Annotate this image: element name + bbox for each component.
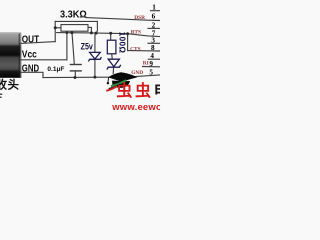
wire zener riser (94, 33, 96, 52)
svg-text:Z5v: Z5v (81, 40, 94, 51)
wire rail drop to V-node (96, 21, 97, 33)
wire Vcc horizontal (21, 59, 67, 61)
svg-text:3: 3 (151, 36, 155, 44)
wire D2 to ground (112, 67, 114, 73)
wire top rail (55, 20, 97, 22)
resistor R1 3.3K box (61, 25, 88, 32)
wire 100ohm drop (110, 33, 112, 40)
node OUT/resistor tee (54, 26, 57, 29)
wire capacitor bottom stub (74, 71, 76, 77)
node cap ground (74, 76, 77, 79)
DB9 signal names (130, 15, 149, 76)
svg-text:RI: RI (143, 61, 149, 67)
svg-text:0.1µF: 0.1µF (47, 66, 64, 73)
wire resistor left lead (55, 27, 61, 29)
svg-text:CTS: CTS (130, 46, 141, 52)
node zener ground (93, 76, 96, 79)
svg-text:虫虫电: 虫虫电 (116, 81, 160, 100)
DB9 pin numbers (149, 4, 156, 77)
svg-text:4: 4 (150, 52, 154, 60)
svg-text:www.eeworm: www.eeworm (111, 102, 160, 110)
wire OUT horizontal (21, 42, 55, 44)
wire pin4 stub (148, 58, 160, 60)
wire RTS-CTS tie (127, 34, 129, 51)
node 100ohm top (109, 32, 112, 35)
partial character fragment bottom-left (0, 94, 2, 95)
svg-text:9: 9 (149, 60, 153, 68)
svg-text:5: 5 (149, 68, 153, 76)
svg-text:收头: 收头 (0, 77, 20, 91)
svg-text:1: 1 (152, 4, 156, 12)
resistor R2 100ohm box (107, 40, 116, 54)
watermark logo graduation cap (106, 72, 137, 91)
wire CTS pin8 line (128, 50, 160, 52)
svg-text:GND: GND (131, 70, 143, 76)
wire pin3 stub (148, 42, 160, 44)
diode D2 (107, 59, 121, 69)
wire zener to ground (94, 59, 96, 77)
svg-text:Vcc: Vcc (22, 49, 37, 60)
wire pin1 stub (151, 10, 161, 12)
wire V-node distribution line (57, 33, 160, 37)
svg-text:6: 6 (152, 12, 156, 20)
IR receiver module body (0, 32, 21, 78)
node Vcc riser (66, 31, 69, 34)
node RTS tie (126, 32, 129, 35)
zener diode Z5v (88, 52, 101, 61)
svg-text:100Ω: 100Ω (117, 32, 126, 54)
node zener top (95, 32, 98, 35)
svg-text:RTS: RTS (131, 29, 141, 35)
junction dots (54, 26, 129, 79)
wire ground rail to pin 5 (43, 75, 160, 78)
svg-text:DSR: DSR (134, 15, 145, 21)
wire pin9 stub (143, 66, 161, 68)
svg-text:3.3KΩ: 3.3KΩ (60, 9, 87, 20)
node cap riser (70, 31, 73, 34)
wire 100ohm to D2 (111, 54, 114, 60)
wire pin2 stub (148, 27, 160, 29)
wire Vcc riser (66, 33, 68, 60)
wire OUT riser (54, 21, 56, 41)
wire DSR pin6 line (86, 18, 160, 21)
capacitor C1 plates (70, 65, 82, 71)
wire capacitor riser (72, 33, 74, 64)
wire GND horizontal (21, 72, 43, 77)
wire resistor right lead (88, 27, 91, 33)
node resistor right (90, 31, 93, 34)
